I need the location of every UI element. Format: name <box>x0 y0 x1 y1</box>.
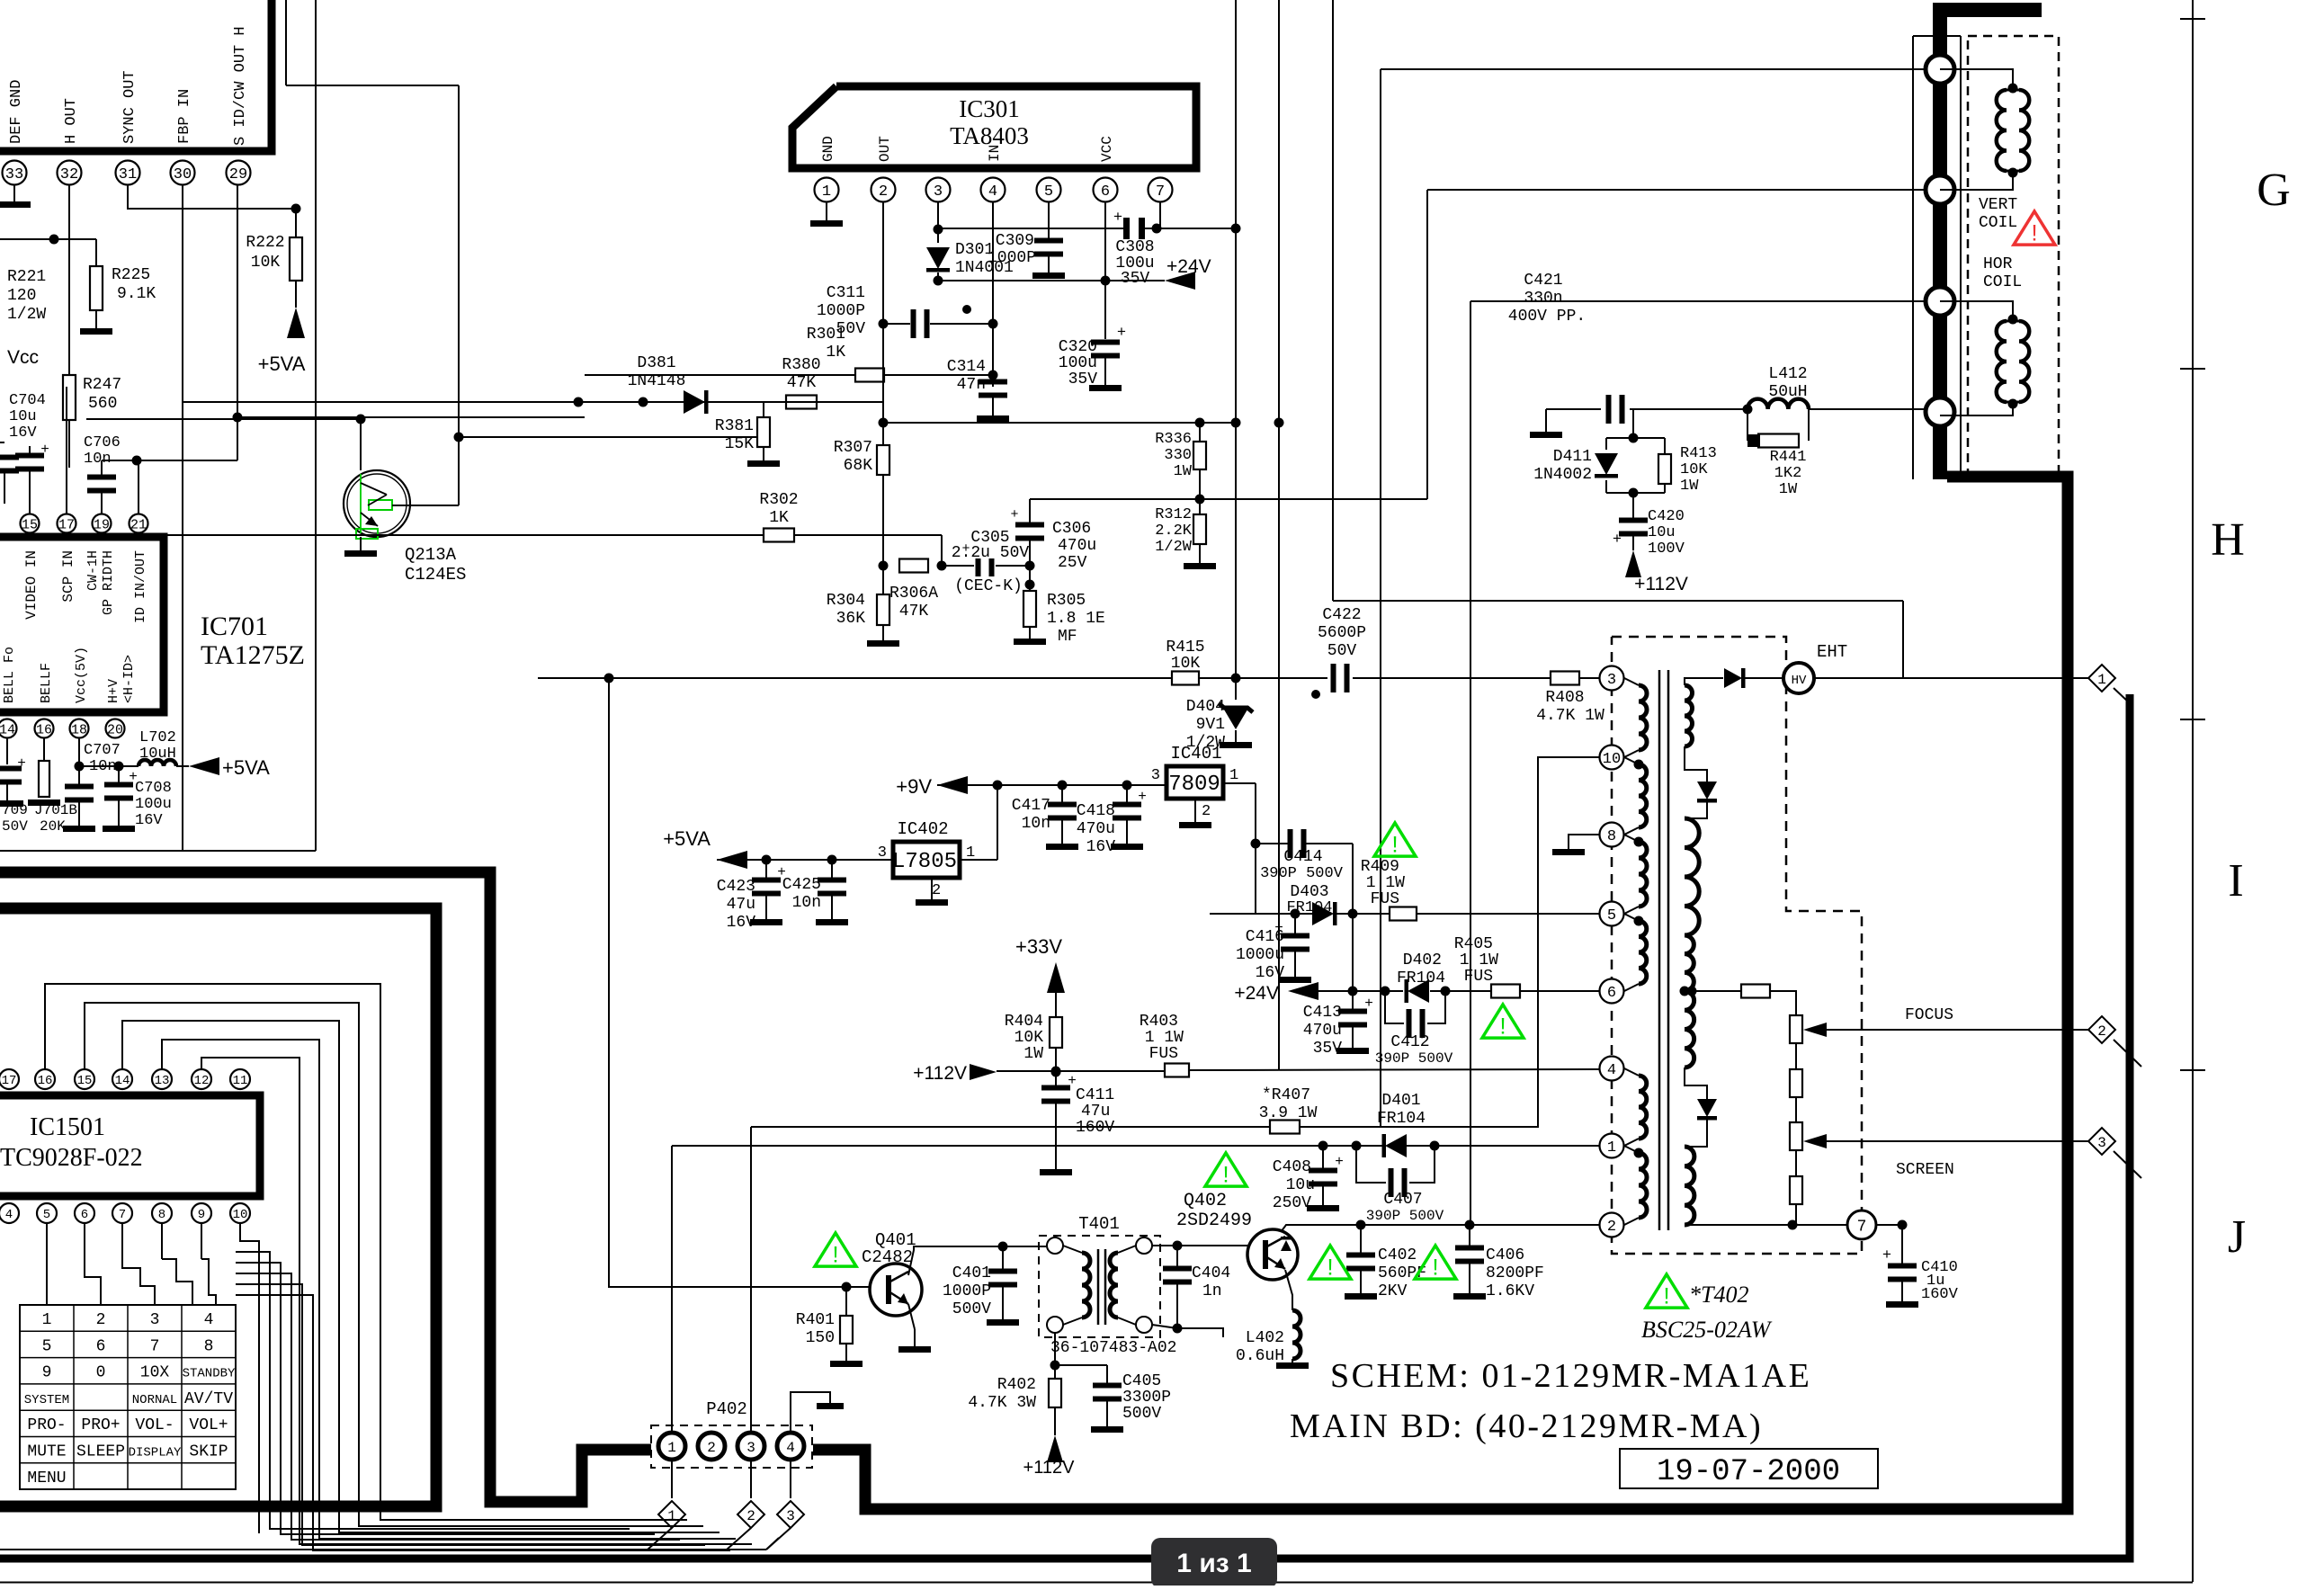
wire IC301 pin4 down <box>988 202 998 329</box>
label C417 10n <box>1012 797 1050 833</box>
IC401 gnd <box>1179 799 1211 828</box>
wire pin18 node <box>75 738 124 772</box>
wire IC402 out <box>960 785 997 860</box>
svg-text:IC701: IC701 <box>201 612 268 641</box>
power arrow +112V (R402) <box>1023 1435 1076 1478</box>
svg-text:J: J <box>2228 1211 2246 1263</box>
pin label SYNC OUT <box>121 70 139 144</box>
P402 pin3 wire up <box>750 1127 752 1432</box>
P402 pin 2 <box>698 1433 725 1460</box>
label 19-07-2000 <box>1657 1455 1840 1489</box>
svg-text:1W: 1W <box>1174 463 1193 480</box>
inductor L702 <box>119 760 189 766</box>
svg-text:!: ! <box>1499 1014 1506 1039</box>
svg-text:10n: 10n <box>89 758 117 775</box>
IC201 pin 30 <box>171 161 195 185</box>
svg-text:1W: 1W <box>1023 1045 1043 1063</box>
wire IC301 pin5 down <box>1048 202 1050 240</box>
svg-text:3: 3 <box>786 1508 795 1524</box>
label R306A 47K <box>889 585 938 621</box>
svg-text:D381: D381 <box>637 354 675 372</box>
svg-text:17: 17 <box>2 1074 17 1088</box>
svg-text:S ID/CW OUT H: S ID/CW OUT H <box>232 26 249 146</box>
svg-text:7: 7 <box>119 1208 126 1222</box>
long vertical x1635 <box>1470 301 1471 1225</box>
svg-text:1n: 1n <box>1202 1282 1222 1300</box>
svg-text:D403: D403 <box>1290 883 1328 901</box>
thick border outer <box>0 872 651 1502</box>
svg-text:Vcc: Vcc <box>7 347 39 368</box>
svg-text:7809: 7809 <box>1168 773 1220 797</box>
svg-text:P402: P402 <box>706 1399 747 1419</box>
svg-text:C306: C306 <box>1052 520 1091 538</box>
resistor R380 <box>786 396 817 409</box>
svg-text:TA1275Z: TA1275Z <box>201 640 305 670</box>
label Vcc <box>7 347 39 368</box>
wire Q213A right up <box>0 0 1 1</box>
svg-text:DISPLAY: DISPLAY <box>129 1446 182 1460</box>
label *R407 3.9 1W <box>1259 1086 1318 1122</box>
svg-text:C425: C425 <box>782 876 821 894</box>
svg-text:Q213A: Q213A <box>405 545 457 565</box>
svg-text:5: 5 <box>1607 907 1616 925</box>
label R247 560 <box>83 376 121 413</box>
svg-text:10u: 10u <box>1648 524 1676 541</box>
svg-text:COIL: COIL <box>1979 214 2017 232</box>
capacitor C308 <box>1113 210 1145 239</box>
wire +9V rail <box>937 781 1166 791</box>
svg-text:R402: R402 <box>997 1376 1036 1394</box>
resistor R336 <box>1193 423 1206 505</box>
svg-text:47n: 47n <box>957 376 986 394</box>
svg-text:SYNC OUT: SYNC OUT <box>121 70 139 144</box>
label C407 390P 500V <box>1366 1191 1444 1224</box>
svg-text:FBP IN: FBP IN <box>176 89 193 144</box>
svg-text:20: 20 <box>107 722 123 737</box>
diamond <1> <box>2088 665 2130 703</box>
label VERT COIL <box>1979 196 2017 232</box>
wire pin30 down <box>182 185 183 851</box>
VERT coil windings <box>1940 90 2029 190</box>
red warning triangle <box>2014 211 2055 246</box>
svg-text:+5VA: +5VA <box>258 353 306 375</box>
IC701 top pin 21 <box>130 514 148 533</box>
svg-text:390P 500V: 390P 500V <box>1366 1208 1444 1224</box>
inductor L402 <box>1276 1310 1309 1369</box>
label L702 10uH <box>139 729 176 763</box>
wire y754 to R408 <box>1540 677 1551 679</box>
label C309 1000P <box>988 232 1036 267</box>
svg-text:VCC: VCC <box>1099 136 1115 162</box>
svg-text:L402: L402 <box>1246 1329 1284 1347</box>
label C401 1000P 500V <box>943 1264 991 1318</box>
ground C421 <box>1530 409 1562 438</box>
IC301 box <box>792 86 1196 168</box>
capacitor C417 <box>1046 785 1078 850</box>
svg-text:+: + <box>40 442 49 458</box>
T402 secondary diode 2 <box>1685 1067 1717 1147</box>
svg-text:17: 17 <box>58 517 75 532</box>
svg-text:1/2W: 1/2W <box>1155 539 1193 556</box>
svg-text:GP RIDTH: GP RIDTH <box>101 550 116 615</box>
svg-text:47K: 47K <box>787 374 817 392</box>
wire C414 right leg <box>1348 844 1358 991</box>
svg-text:R301: R301 <box>807 326 845 344</box>
svg-text:1: 1 <box>2097 672 2106 688</box>
deflection dashed box <box>1968 36 2059 479</box>
wire Q401 base <box>604 674 871 1292</box>
pin label VCC <box>1099 136 1115 162</box>
wire pin6 row <box>1318 987 1403 996</box>
svg-text:330n: 330n <box>1524 290 1562 308</box>
label C425 10n <box>782 876 821 912</box>
grid row letter H <box>2211 514 2245 566</box>
label BSC25-02AW <box>1641 1317 1773 1343</box>
svg-text:50V: 50V <box>1327 642 1357 660</box>
resistor R407 <box>1270 757 1599 1134</box>
svg-text:R306A: R306A <box>889 585 938 603</box>
IC301 pin 5 <box>1037 178 1061 202</box>
IC1501 pin12 bus <box>201 1058 752 1544</box>
label R305 1.8 1E MF <box>1047 592 1105 646</box>
regulator IC401 7809 box <box>1166 766 1223 799</box>
label Q402 2SD2499 <box>1176 1191 1252 1231</box>
svg-text:3: 3 <box>1607 672 1616 689</box>
svg-text:10n: 10n <box>1022 815 1050 833</box>
power arrow +112V mid <box>913 1063 1165 1084</box>
svg-text:36K: 36K <box>836 610 866 628</box>
svg-text:470u: 470u <box>1077 820 1115 838</box>
svg-text:C408: C408 <box>1273 1158 1311 1176</box>
svg-text:4.7K 1W: 4.7K 1W <box>1536 707 1604 725</box>
svg-text:1W: 1W <box>1680 478 1699 495</box>
svg-text:R381: R381 <box>715 417 754 435</box>
wire IC401 out <box>1223 783 1256 914</box>
capacitor C320 <box>1089 325 1126 391</box>
svg-text:+: + <box>1010 507 1018 523</box>
svg-text:R304: R304 <box>827 592 865 610</box>
svg-text:10n: 10n <box>792 894 821 912</box>
wire HV to diamond1 <box>1814 677 2088 679</box>
svg-text:I: I <box>2228 855 2243 907</box>
svg-text:1000P: 1000P <box>817 302 865 320</box>
wire pin29 down <box>237 185 238 460</box>
IC201 pin 32 <box>58 161 82 185</box>
capacitor C421 <box>1546 395 1753 424</box>
svg-text:C401: C401 <box>952 1264 991 1282</box>
svg-text:SKIP: SKIP <box>189 1443 228 1461</box>
IC1501 pin15 bus2 <box>85 1003 703 1526</box>
label R302 1K <box>759 491 798 527</box>
wire Q213A emitter gnd <box>344 537 377 557</box>
label R304 36K <box>827 592 865 628</box>
svg-text:C407: C407 <box>1383 1191 1422 1209</box>
page badge 1 iz 1 <box>1151 1538 1277 1588</box>
grid row letter G <box>2257 165 2291 216</box>
svg-text:10K: 10K <box>1680 461 1708 478</box>
svg-text:C707: C707 <box>84 742 121 759</box>
label D401 FR104 <box>1377 1092 1426 1128</box>
svg-text:2: 2 <box>932 882 941 899</box>
wire y754 to C422 <box>1236 677 1327 679</box>
svg-text:<H-ID>: <H-ID> <box>121 655 137 703</box>
wire pin2 to pin7 <box>1685 1224 1847 1226</box>
svg-text:R305: R305 <box>1047 592 1086 610</box>
svg-text:6: 6 <box>81 1208 88 1222</box>
connector pin circle 1 <box>1926 55 1954 84</box>
IC1501 bottom pin 6 <box>75 1203 94 1223</box>
svg-text:C404: C404 <box>1192 1264 1230 1282</box>
IC1501 bottom pin 9 <box>192 1203 211 1223</box>
resistor R408 <box>1551 672 1599 685</box>
wire pin4 branch down <box>992 324 994 387</box>
resistor R441 <box>1747 409 1809 448</box>
svg-text:C411: C411 <box>1076 1086 1114 1104</box>
capacitor C406 <box>1453 1225 1486 1300</box>
warning triangle pin6 <box>1482 1005 1524 1039</box>
label D403 FR104 <box>1286 883 1332 916</box>
svg-text:+: + <box>17 755 26 772</box>
T402 secondary winding bot <box>1685 1147 1694 1225</box>
wire y449 <box>183 397 851 407</box>
svg-text:5: 5 <box>43 1208 50 1222</box>
svg-text:C422: C422 <box>1322 606 1361 624</box>
svg-text:2.2u 50V: 2.2u 50V <box>952 544 1030 562</box>
IC402 gnd <box>916 878 948 906</box>
svg-text:IC301: IC301 <box>959 95 1020 122</box>
wire pin21 up <box>138 460 139 514</box>
IC701 bottom pin 14 <box>0 719 17 738</box>
svg-text:16V: 16V <box>727 914 756 932</box>
svg-text:1K: 1K <box>769 509 789 527</box>
svg-text:150: 150 <box>806 1329 835 1347</box>
svg-text:2: 2 <box>746 1508 755 1524</box>
capacitor C311 <box>879 305 994 338</box>
capacitor C412 bypass <box>1385 991 1445 1038</box>
wire y312 row <box>934 276 1106 286</box>
pin label S ID/CW OUT H <box>232 26 249 146</box>
T401 primary coil <box>1063 1246 1090 1325</box>
P402 diamond 1 <box>648 1501 685 1550</box>
svg-text:560: 560 <box>88 395 117 413</box>
svg-text:500V: 500V <box>1122 1405 1161 1423</box>
svg-text:Vcc(5V): Vcc(5V) <box>74 647 89 703</box>
capacitor C418 <box>1111 785 1147 850</box>
svg-text:!: ! <box>1663 1283 1669 1309</box>
svg-text:R403: R403 <box>1140 1013 1178 1031</box>
svg-text:+: + <box>1364 996 1373 1012</box>
svg-text:7: 7 <box>1857 1218 1867 1236</box>
wire IC301 pin2 down <box>879 202 889 428</box>
label *T402 <box>1689 1282 1748 1308</box>
grid row letter J <box>2228 1211 2246 1263</box>
transistor Q213A <box>344 437 758 539</box>
resistor R302 <box>86 529 942 542</box>
svg-text:C423: C423 <box>717 878 755 896</box>
svg-text:4: 4 <box>5 1208 13 1222</box>
svg-text:D411: D411 <box>1553 448 1592 466</box>
svg-text:D401: D401 <box>1381 1092 1420 1110</box>
capacitor C407 bypass <box>1356 1146 1435 1197</box>
svg-text:1N4002: 1N4002 <box>1533 466 1592 484</box>
svg-text:*R407: *R407 <box>1262 1086 1310 1104</box>
svg-text:SCP IN: SCP IN <box>60 550 76 603</box>
capacitor C708 <box>103 766 138 832</box>
IC1501 pin13 bus <box>162 1040 736 1539</box>
T402 dashed box <box>1612 637 1862 1254</box>
svg-text:4.7K 3W: 4.7K 3W <box>968 1394 1036 1412</box>
capacitor C309 <box>1032 238 1065 280</box>
svg-text:G: G <box>2257 165 2291 216</box>
svg-text:6: 6 <box>1607 985 1616 1002</box>
IC1501 top pin 15 <box>75 1069 94 1089</box>
long vertical x1587 <box>1426 190 1428 499</box>
wire pin1 row <box>672 1141 1384 1151</box>
wire pin32 down <box>68 185 70 375</box>
IC301 pin 3 <box>926 178 951 202</box>
label 36-107483-A02 <box>1050 1339 1176 1357</box>
wire pin17 up <box>66 387 67 514</box>
IC1501 pin16 bus <box>45 984 687 1520</box>
label C320 100u 35V <box>1059 338 1097 389</box>
connector pin circle 2 <box>1926 175 1954 204</box>
svg-text:R225: R225 <box>112 266 150 284</box>
capacitor C420 <box>1613 493 1648 550</box>
label L702b <box>0 0 1 1</box>
svg-text:20K: 20K <box>40 818 66 835</box>
wire IC301 pin6 down <box>1101 202 1111 286</box>
svg-text:+: + <box>1113 210 1122 227</box>
warning triangle Q402 <box>1205 1153 1247 1187</box>
EHT dashed drop <box>0 0 1 1</box>
svg-text:L7805: L7805 <box>892 850 957 874</box>
svg-text:250V: 250V <box>1273 1194 1311 1212</box>
svg-text:R405: R405 <box>1454 935 1493 953</box>
resistor R404 <box>1050 1017 1062 1077</box>
label C308 100u 35V <box>1115 238 1154 288</box>
HV circle <box>1783 663 1814 693</box>
IC301 pin 2 <box>871 178 896 202</box>
IC701 bottom pin 18 <box>70 719 89 738</box>
IC1501 top pin 17 <box>0 1069 19 1089</box>
IC301 pin 1 <box>815 178 839 202</box>
svg-text:C413: C413 <box>1303 1004 1342 1022</box>
svg-text:+: + <box>1882 1247 1891 1264</box>
T402 primary winding 8-5 <box>1624 835 1647 914</box>
hor coil wiring <box>1940 301 2018 325</box>
svg-text:7: 7 <box>1156 183 1165 201</box>
svg-text:100u: 100u <box>135 796 172 813</box>
resistor R306A <box>899 559 928 573</box>
svg-text:FR104: FR104 <box>1397 969 1445 987</box>
svg-text:R413: R413 <box>1680 445 1717 462</box>
wire pin15 up to C704 <box>29 504 31 514</box>
svg-text:H+V: H+V <box>106 679 121 703</box>
wire conn pin1 left <box>1381 68 1926 70</box>
svg-text:10uH: 10uH <box>139 746 176 763</box>
svg-text:16: 16 <box>36 722 52 737</box>
label R404 10K 1W <box>1005 1013 1043 1063</box>
IC1501 pin14 bus <box>122 1021 720 1532</box>
IC1501 top pin 16 <box>35 1069 55 1089</box>
ground pin8 <box>1552 835 1599 855</box>
T402 primary winding 5-6 <box>1624 914 1647 991</box>
warning triangle C402 right <box>1415 1246 1456 1280</box>
long vertical x1535 <box>1380 69 1381 1127</box>
svg-text:T401: T401 <box>1078 1214 1120 1234</box>
svg-text:35V: 35V <box>1121 270 1150 288</box>
svg-text:L412: L412 <box>1768 365 1807 383</box>
label R415 10K <box>1166 639 1204 673</box>
warning triangle Q401 <box>815 1233 856 1267</box>
svg-text:!: ! <box>1432 1255 1438 1280</box>
svg-text:MF: MF <box>1058 628 1077 646</box>
label C410 1u 160V <box>1921 1259 1959 1303</box>
T402 secondary winding mid <box>1685 818 1699 935</box>
label D411 1N4002 <box>1533 448 1592 484</box>
capacitor C402 <box>1345 1225 1377 1300</box>
label R402 4.7K 3W <box>968 1376 1036 1412</box>
svg-text:BELLF: BELLF <box>39 663 54 703</box>
warning triangle R409 <box>1374 823 1416 857</box>
wire R302 down to R306A <box>937 535 947 571</box>
svg-text:!: ! <box>2031 220 2037 246</box>
label R405 1 1W FUS <box>1454 935 1498 986</box>
svg-text:Q402: Q402 <box>1184 1191 1227 1211</box>
svg-text:2.2K: 2.2K <box>1155 523 1193 540</box>
svg-text:VERT: VERT <box>1979 196 2017 214</box>
svg-text:5: 5 <box>1044 183 1053 201</box>
Q401 emitter gnd <box>898 1304 931 1353</box>
svg-text:R336: R336 <box>1155 431 1192 448</box>
vertical x643 <box>0 0 1 1</box>
svg-text:C314: C314 <box>947 358 986 376</box>
svg-text:1W: 1W <box>1779 481 1798 498</box>
svg-text:2: 2 <box>707 1440 716 1456</box>
IC1501 bottom pin 8 <box>152 1203 172 1223</box>
svg-text:+112V: +112V <box>1023 1458 1076 1478</box>
focus divider chain <box>1685 985 1796 1016</box>
svg-text:IC1501: IC1501 <box>30 1113 105 1141</box>
svg-text:47u: 47u <box>727 896 755 914</box>
svg-text:390P 500V: 390P 500V <box>1375 1050 1453 1067</box>
divider resistor 2 <box>1790 1069 1802 1122</box>
thin box around connector <box>1913 36 1961 479</box>
svg-text:STANDBY: STANDBY <box>183 1367 236 1381</box>
svg-text:1 1W: 1 1W <box>1460 951 1498 969</box>
svg-text:3300P: 3300P <box>1122 1389 1171 1407</box>
svg-text:1 1W: 1 1W <box>1145 1029 1184 1047</box>
capacitor C314 <box>977 375 1009 422</box>
thick border outer right part <box>813 10 2068 1509</box>
svg-text:9: 9 <box>198 1208 205 1222</box>
svg-text:1N4148: 1N4148 <box>628 372 686 390</box>
P402 pin3 down <box>750 1460 752 1498</box>
capacitor C401 <box>987 1246 1019 1326</box>
warning triangle T402 <box>1646 1274 1687 1309</box>
svg-text:MUTE: MUTE <box>27 1443 66 1461</box>
pin label GND <box>820 136 836 162</box>
svg-text:DEF GND: DEF GND <box>8 80 25 144</box>
grid tick marks right border <box>2180 19 2205 1070</box>
svg-text:VOL+: VOL+ <box>189 1416 228 1434</box>
svg-text:H: H <box>2211 514 2245 566</box>
svg-text:470u: 470u <box>1303 1022 1342 1040</box>
power arrow +5VA (L702) <box>189 756 270 779</box>
svg-text:2SD2499: 2SD2499 <box>1176 1210 1252 1231</box>
svg-text:33: 33 <box>5 166 23 183</box>
capacitor C408 <box>1307 1146 1344 1211</box>
